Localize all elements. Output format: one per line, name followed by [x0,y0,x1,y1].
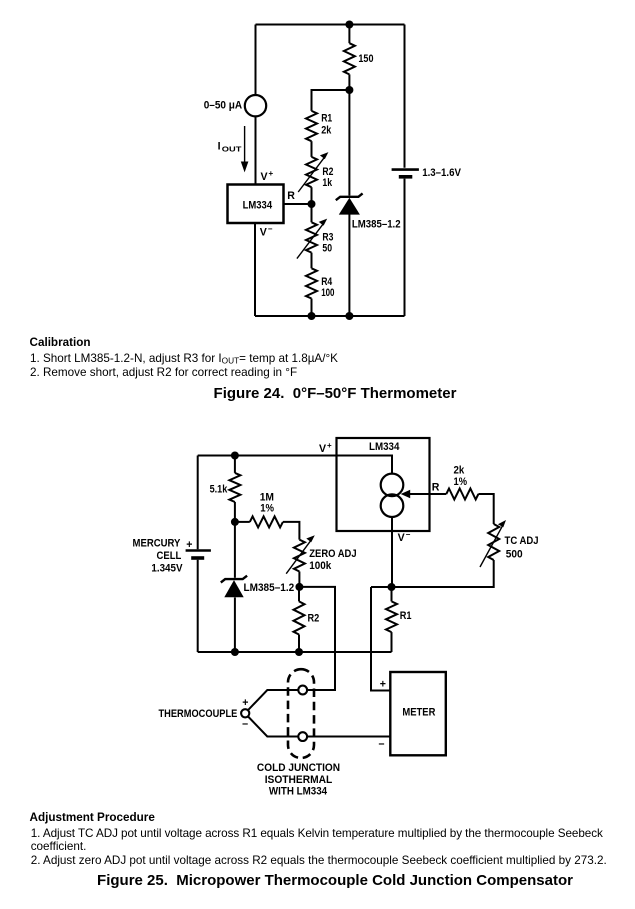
svg-text:1%: 1% [454,476,468,488]
svg-text:V: V [260,227,267,239]
svg-text:2k: 2k [454,464,465,476]
text: adjustment step 1 [31,827,603,840]
svg-text:LM385–1.2: LM385–1.2 [352,219,401,231]
node: junction 5.1k / 1M / zener [231,518,239,526]
svg-text:CELL: CELL [157,550,182,562]
node: junction zener bottom rail [345,312,353,320]
svg-text:1%: 1% [260,503,274,515]
wire: fig24 R3-R4 link [311,253,313,269]
node: junction R pin / divider [308,200,316,208]
wire: fig24 bottom rail [255,315,405,317]
wire: fig25 zener top lead [234,522,236,578]
wire: fig25 mercury cell branch upper [197,456,199,550]
cold junction upper terminal circle [298,686,307,695]
text: Adjustment Procedure heading [30,811,155,824]
wire: fig25 thermocouple upper diagonal [248,690,299,711]
wire: fig24 left branch meter-to-LM334 [255,116,257,184]
thermocouple junction circle [241,709,249,717]
wire: fig24 R2 to junction [311,187,313,222]
node: junction zero-adj / R2 / thermocouple [295,583,303,591]
resistor 150 [344,43,355,74]
svg-text:ZERO ADJ: ZERO ADJ [309,548,356,560]
wire: fig25 R2 top lead [298,587,300,602]
wire: fig25 1M left lead [235,521,250,523]
zener D2 LM385-1.2 (fig25) [221,576,247,583]
svg-text:150: 150 [358,53,373,65]
svg-text:TC ADJ: TC ADJ [505,535,539,547]
wire: fig24 left branch upper [255,25,257,96]
svg-text:COLD JUNCTION: COLD JUNCTION [257,762,340,774]
node: junction top rail / 5.1k (fig25) [231,452,239,460]
wire: fig24 LM334 V- to bottom rail [254,223,256,316]
svg-text:100k: 100k [309,560,331,572]
wire: fig24 top rail [256,24,405,26]
resistor R4 100 [306,268,317,298]
svg-text:+: + [242,697,248,709]
svg-text:R1: R1 [321,113,332,125]
op-amp U2 LM334 box (fig25) [337,438,430,531]
zener D1 LM385-1.2 (fig24) [336,193,363,200]
svg-text:LM385–1.2: LM385–1.2 [244,582,295,594]
svg-text:V: V [398,532,405,544]
node: junction V- / R1 / TC ADJ / meter [388,583,396,591]
svg-text:LM334: LM334 [243,200,273,212]
svg-text:R: R [432,482,440,494]
wire: fig25 R pin lead from 2k to arrow [409,493,446,495]
resistor R1 (fig25) [386,601,397,632]
text: calibration step 1 [30,352,338,366]
svg-text:5.1k: 5.1k [210,484,228,496]
wire: fig24 150 top lead [348,25,350,44]
svg-text:THERMOCOUPLE: THERMOCOUPLE [159,708,238,720]
svg-text:I: I [218,141,221,153]
wire: fig24 R1-R2 link [311,141,313,157]
wire: fig25 TC ADJ bottom to horizontal rail [371,560,494,587]
wire: fig24 divider top corner to 150 junction [312,90,350,111]
wire: fig24 zener branch upper [348,90,350,196]
wire: fig25 lower circle to meter - [307,736,391,738]
svg-text:100: 100 [321,287,334,299]
wire: fig24 R pin to divider junction [284,203,312,205]
wire: fig25 thermocouple lower diagonal [248,716,299,737]
wire: fig24 zener branch lower [348,214,350,316]
svg-text:−: − [378,738,384,750]
svg-text:WITH LM334: WITH LM334 [269,786,327,798]
svg-text:ISOTHERMAL: ISOTHERMAL [265,774,333,786]
wire: fig25 R2 bottom lead [298,635,300,653]
wire: fig25 meter + drop [371,587,390,691]
text: adjustment step 2 [31,854,607,867]
wire: fig25 2k right lead corner down to TC ADJ [478,494,493,524]
resistor 5.1k [229,473,240,502]
potentiometer ZERO ADJ 100k [294,540,305,572]
node: junction divider bottom [308,312,316,320]
cold junction lower terminal circle [298,732,307,741]
wire: fig25 upper circle to right [307,689,335,691]
svg-text:500: 500 [506,549,523,561]
svg-text:−: − [406,530,411,539]
wire: fig25 R1 top lead [391,587,393,601]
wire: fig24 R4 to bottom rail [311,299,313,317]
svg-text:1.345V: 1.345V [151,563,182,575]
node: junction R2 bottom rail [295,648,303,656]
cold junction isothermal dashed capsule [288,669,314,758]
wire: fig25 mercury cell branch lower [197,560,199,652]
wire: fig25 V+ into box to current source [337,456,393,474]
svg-text:−: − [268,225,273,234]
svg-text:+: + [186,539,192,551]
wire: fig25 junction to thermocouple + column [299,587,335,690]
svg-text:+: + [269,169,274,178]
svg-text:1k: 1k [322,177,332,189]
wire: fig25 current source to V- junction [391,517,393,587]
node: junction 150 / divider top [345,86,353,94]
svg-text:R: R [287,190,295,202]
meter M1 0-50uA circle [245,95,266,116]
svg-text:−: − [242,718,248,730]
potentiometer R3 50 [306,222,317,252]
wire: fig25 top rail [198,455,337,457]
node: junction top rail / 150 [345,21,353,29]
meter box METER [390,672,446,755]
wire: fig24 right branch upper to battery [404,25,406,168]
wire: fig25 R1 bottom lead [391,632,393,652]
resistor R1 2k [306,111,317,141]
wire: fig25 zero-adj pot to junction [298,572,300,587]
battery B1 1.3-1.6V (fig24) [392,168,419,171]
arrow IOUT (fig24) [244,126,246,164]
potentiometer R2 1k [306,157,317,187]
wire: fig25 1M right lead and corner down to pot [283,522,300,540]
svg-text:METER: METER [402,706,435,718]
text: Figure 24 caption [214,385,457,402]
svg-text:V: V [319,443,326,455]
svg-text:+: + [380,679,386,691]
resistor 2k 1% [446,489,478,500]
svg-text:MERCURY: MERCURY [133,538,181,550]
svg-text:50: 50 [322,242,332,254]
text: calibration step 2 [30,366,297,379]
svg-text:OUT: OUT [222,147,243,154]
node: junction zener bottom rail (fig25) [231,648,239,656]
text: adjustment step 1 continuation [31,840,87,853]
wire: fig25 5.1k top lead [234,456,236,473]
arrow R pin into current source [401,490,411,499]
svg-text:+: + [327,441,332,450]
op-amp U1 LM334 box (fig24) [228,185,284,224]
current source circles inside LM334 [381,474,404,497]
text: Figure 25 caption [97,872,573,889]
svg-text:R2: R2 [308,613,320,625]
svg-text:LM334: LM334 [369,441,399,453]
resistor R2 (fig25) [294,601,305,634]
svg-text:R1: R1 [400,610,412,622]
wire: fig24 right branch battery to bottom [404,179,406,316]
wire: fig25 5.1k bottom lead [234,502,236,522]
wire: fig24 150 bottom lead to junction [348,74,350,90]
resistor 1M 1% [250,516,283,527]
svg-text:V: V [261,171,268,183]
potentiometer TC ADJ 500 [488,524,499,560]
wire: fig25 bottom rail [198,651,392,653]
wire: fig25 zener bottom lead [234,598,236,653]
svg-text:0–50 μA: 0–50 μA [204,99,243,111]
text: Calibration heading [30,336,91,349]
svg-text:2k: 2k [321,125,331,137]
battery B2 mercury cell 1.345V [186,549,211,552]
svg-text:1.3–1.6V: 1.3–1.6V [422,167,461,179]
